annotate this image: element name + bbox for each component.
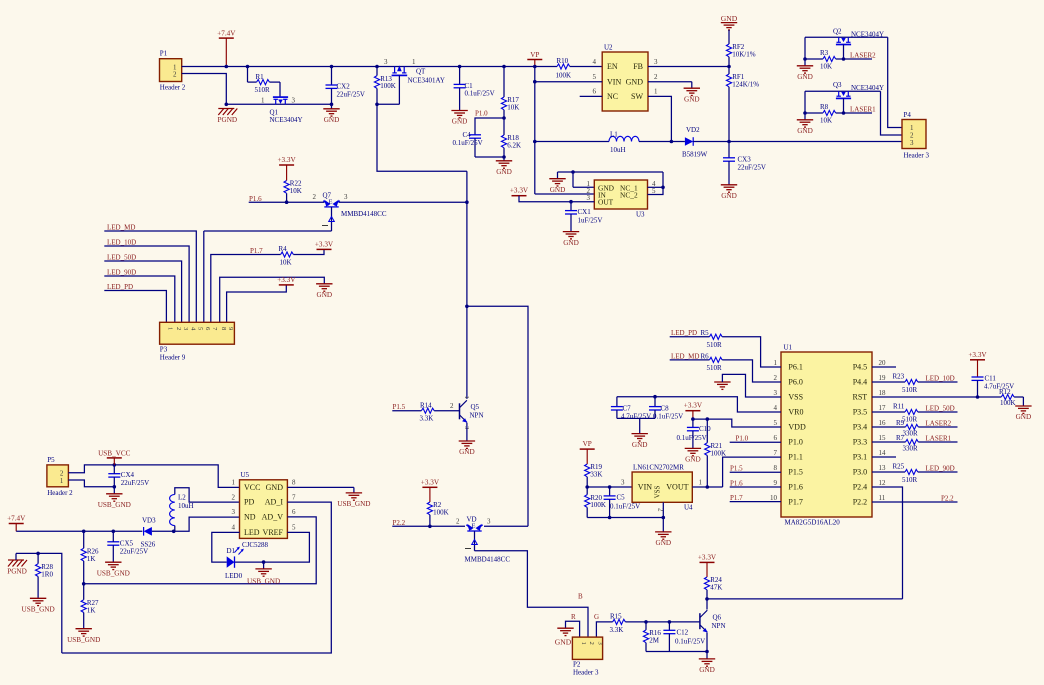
svg-text:P1.0: P1.0 <box>475 110 488 118</box>
wire CX3 bottom lead <box>728 161 730 185</box>
wire +3.3V to U1 VDD <box>693 419 781 427</box>
svg-text:17: 17 <box>879 404 887 412</box>
wire stem to GND <box>662 518 664 532</box>
svg-text:R12: R12 <box>999 388 1011 396</box>
wire R1 right lead <box>269 81 280 83</box>
svg-text:3: 3 <box>774 389 778 397</box>
wire U4 bottom gnd row <box>587 517 663 519</box>
svg-text:22uF/25V: 22uF/25V <box>120 547 148 555</box>
svg-text:6.2K: 6.2K <box>507 142 521 150</box>
wire bus to R17 <box>503 67 505 98</box>
wire VOUT to CX3 <box>728 142 730 158</box>
svg-text:R5: R5 <box>701 329 710 337</box>
resistor R2 <box>427 502 432 515</box>
ground USB_GND under R28 (USB_GND) <box>30 597 46 599</box>
wire U2 GND pin wire <box>648 81 692 83</box>
power +3.3V P3 pin9 (+3.3V) <box>279 284 294 286</box>
svg-text:0.1uF/25V: 0.1uF/25V <box>653 412 683 420</box>
svg-text:GND: GND <box>626 77 644 86</box>
wire R20 top lead <box>586 487 588 495</box>
svg-text:NCE3404Y: NCE3404Y <box>270 116 303 124</box>
svg-text:GND: GND <box>797 127 813 135</box>
svg-text:P2: P2 <box>573 661 581 669</box>
svg-text:R1: R1 <box>256 73 265 81</box>
svg-text:D1: D1 <box>227 547 236 555</box>
svg-text:USB_GND: USB_GND <box>337 500 370 508</box>
wire P1.0 branch to C4 <box>475 118 504 135</box>
svg-text:LED: LED <box>244 528 260 537</box>
ground GND under R18 <box>496 160 512 162</box>
sensor U5 body <box>240 480 288 539</box>
header P2 body <box>572 637 602 659</box>
regulator U3 body <box>594 180 647 209</box>
wire R13-gate link <box>377 103 399 105</box>
svg-text:PGND: PGND <box>218 116 238 124</box>
wire pin13 to R25 <box>872 471 905 473</box>
svg-text:2: 2 <box>654 73 658 81</box>
svg-text:VD3: VD3 <box>142 517 156 525</box>
wire VP to L1 <box>535 141 609 143</box>
wire CX4 bottom lead <box>113 477 115 487</box>
capacitor C8 <box>649 406 661 408</box>
svg-text:VP: VP <box>530 51 539 59</box>
svg-text:LED_PD: LED_PD <box>671 329 697 337</box>
ground USB_GND under CX4 (USB_GND) <box>106 493 122 495</box>
svg-text:7: 7 <box>774 449 778 457</box>
junction CX5 tap <box>112 530 116 534</box>
capacitor C4 <box>469 134 481 136</box>
wire VR0 rail from C7/C8 <box>617 397 781 412</box>
wire QT gate drop <box>398 75 400 104</box>
svg-text:GND: GND <box>699 666 715 674</box>
capacitor CX3 <box>723 157 735 159</box>
svg-text:LED_50D: LED_50D <box>107 254 136 262</box>
ground GND under U4 <box>655 531 671 533</box>
svg-text:GND: GND <box>266 483 284 492</box>
wire vertical bus x467 <box>466 171 468 399</box>
resistor R17 <box>501 97 506 110</box>
svg-text:VSS: VSS <box>788 393 803 402</box>
wire VP to U2 VIN <box>535 81 602 83</box>
svg-text:P1: P1 <box>160 50 168 58</box>
wire C4 bottom lead <box>474 138 476 157</box>
transistor Q2 NCE3404Y <box>836 37 851 44</box>
wire P2 pin1 to GND <box>566 621 580 637</box>
wire stem to GND <box>263 562 265 569</box>
junction AD_V node <box>82 582 86 586</box>
wire R28 top lead <box>37 553 39 563</box>
power +3.3V above C11 (+3.3V) <box>970 359 985 361</box>
resistor R13 <box>374 76 379 89</box>
wire R4 to +3.3V <box>293 249 324 254</box>
svg-text:P1.6: P1.6 <box>788 483 802 492</box>
svg-text:+3.3V: +3.3V <box>968 351 987 359</box>
svg-text:1R0: 1R0 <box>41 570 53 578</box>
wire Q2 drain to P4 pin1 <box>888 37 895 127</box>
wire Q7 common pin down + anode mark <box>331 207 333 231</box>
wire loop up to PGND row <box>16 553 62 653</box>
svg-text:11: 11 <box>879 494 886 502</box>
svg-text:10K: 10K <box>280 259 292 267</box>
junction C8 top junction <box>653 395 657 399</box>
regulator U2 body <box>602 52 648 111</box>
svg-text:3: 3 <box>292 96 296 104</box>
svg-text:LN61CN2702MR: LN61CN2702MR <box>633 464 684 472</box>
svg-text:VREF: VREF <box>263 528 284 537</box>
svg-text:+3.3V: +3.3V <box>277 276 296 284</box>
junction Q7 pin3 junction <box>465 200 469 204</box>
ground GND right of R12 <box>1015 405 1031 407</box>
svg-text:LED_90D: LED_90D <box>926 465 955 473</box>
wire C4/R18 bottom row <box>475 156 504 158</box>
resistor RF2 <box>726 44 731 57</box>
svg-text:C12: C12 <box>677 628 689 636</box>
svg-text:0.1uF/25V: 0.1uF/25V <box>677 434 707 442</box>
wire U4 VOUT wire <box>692 486 722 488</box>
wire R27 bottom lead <box>83 613 85 629</box>
junction P1.0 node <box>502 116 506 120</box>
svg-text:GND: GND <box>324 116 340 124</box>
svg-text:R14: R14 <box>420 401 432 409</box>
wire R24 bottom lead <box>706 590 708 599</box>
wire R7 to LASER1 <box>918 441 957 443</box>
wire RF1 top lead <box>728 67 730 75</box>
svg-text:GND: GND <box>721 192 737 200</box>
svg-text:R: R <box>571 613 576 621</box>
svg-text:100K: 100K <box>1000 399 1016 407</box>
svg-text:Q6: Q6 <box>713 614 722 622</box>
svg-text:4: 4 <box>774 404 778 412</box>
junction emitter/rail junction <box>705 650 709 654</box>
svg-text:3.3K: 3.3K <box>610 626 624 634</box>
junction R19/R20/VIN node <box>585 485 589 489</box>
wire R1 left lead <box>248 81 257 83</box>
wire B net run to P2 pin2 <box>475 551 589 637</box>
svg-text:GND: GND <box>550 186 566 194</box>
svg-text:USB_GND: USB_GND <box>22 606 55 614</box>
junction SW node on L1 row <box>670 140 674 144</box>
svg-text:RST: RST <box>853 393 868 402</box>
wire Q5 emitter to GND <box>466 423 468 441</box>
wire R28 bottom lead <box>37 577 39 599</box>
svg-text:P1.7: P1.7 <box>788 498 802 507</box>
svg-text:3.3K: 3.3K <box>420 415 434 423</box>
svg-text:3: 3 <box>487 517 491 525</box>
junction VOUT node <box>727 140 731 144</box>
svg-text:P3.3: P3.3 <box>853 438 867 447</box>
wire P1.7 net wire (U1 pin10) <box>730 501 781 503</box>
svg-text:1K: 1K <box>87 606 96 614</box>
wire VP to U3 IN <box>535 193 595 195</box>
ground USB_GND under LED0 (USB_GND) <box>255 568 271 570</box>
svg-text:R4: R4 <box>279 245 288 253</box>
svg-text:CX5: CX5 <box>120 539 134 547</box>
svg-text:3: 3 <box>654 58 658 66</box>
wire R17 bottom lead <box>503 110 505 118</box>
svg-text:P1.7: P1.7 <box>730 494 743 502</box>
resistor R28 <box>36 564 41 577</box>
power +3.3V above R24 (+3.3V) <box>700 561 715 563</box>
wire LED_MD wire to R6 <box>670 359 710 361</box>
svg-text:1: 1 <box>60 477 64 485</box>
wire R25 to LED_90D <box>918 471 958 473</box>
wire U3 OUT to +3.3V <box>519 196 594 202</box>
ground GND under CX2 <box>323 108 339 110</box>
svg-text:L2: L2 <box>178 494 186 502</box>
svg-text:10uH: 10uH <box>178 502 194 510</box>
svg-text:AD_I: AD_I <box>265 498 284 507</box>
wire VP vertical rail <box>534 67 536 195</box>
capacitor C7 <box>611 406 623 408</box>
svg-text:5: 5 <box>774 419 778 427</box>
svg-text:CJC5288: CJC5288 <box>242 541 269 549</box>
svg-text:P1.6: P1.6 <box>730 479 743 487</box>
svg-text:P3.4: P3.4 <box>853 423 867 432</box>
svg-text:Header 2: Header 2 <box>160 84 186 92</box>
capacitor CX1 <box>565 210 577 212</box>
wire C8 bottom lead <box>654 410 656 418</box>
svg-text:8: 8 <box>292 479 296 487</box>
svg-text:B5819W: B5819W <box>682 151 708 159</box>
junction Q3 gate node <box>842 111 846 115</box>
junction R28 tap <box>36 552 40 556</box>
svg-text:ND: ND <box>244 512 256 521</box>
svg-text:+7.4V: +7.4V <box>7 515 26 523</box>
svg-text:GND: GND <box>563 239 579 247</box>
header P1 body <box>160 59 182 82</box>
resistor R15 <box>613 619 626 624</box>
svg-text:124K/1%: 124K/1% <box>732 81 759 89</box>
junction Q6 collector node <box>705 597 709 601</box>
wire L1 to VD2 <box>639 141 685 143</box>
power +3.3V at VDD (+3.3V) <box>685 410 700 412</box>
junction FB node <box>727 65 731 69</box>
svg-text:33K: 33K <box>590 471 602 479</box>
wire R8 right lead <box>836 112 844 114</box>
wire Q7 bottom row to P3 pin6 <box>204 230 332 232</box>
svg-text:10K: 10K <box>820 117 832 125</box>
svg-text:510R: 510R <box>707 341 723 349</box>
junction VP rail / L1 row <box>533 140 537 144</box>
wire AD_I long loop <box>62 502 332 653</box>
power +3.3V above R22 (+3.3V) <box>279 164 294 166</box>
svg-text:LED_50D: LED_50D <box>926 405 955 413</box>
resistor R1 <box>257 80 270 85</box>
wire LED_PD wire to R5 <box>670 336 710 338</box>
wire P1.6 net wire <box>249 201 325 203</box>
junction C1 top on bus <box>458 65 462 69</box>
wire R5 to U1 pin1 <box>722 337 781 367</box>
junction USB_GND tap on LED row <box>262 560 266 564</box>
wire CX2 bottom lead <box>331 88 333 104</box>
wire R14 to Q5 base <box>434 410 459 412</box>
power +3.3V right of R4 (+3.3V) <box>317 248 332 250</box>
svg-text:MMBD4148CC: MMBD4148CC <box>465 556 511 564</box>
svg-text:7: 7 <box>292 493 296 501</box>
svg-text:2: 2 <box>313 193 317 201</box>
svg-text:510R: 510R <box>902 415 918 423</box>
wire C12 bottom lead <box>668 634 670 652</box>
inductor L2 <box>170 494 175 525</box>
svg-text:P2.2: P2.2 <box>853 498 867 507</box>
transistor Q5 NPN <box>460 400 468 422</box>
svg-text:P6.1: P6.1 <box>788 363 802 372</box>
wire Q3 gate drop <box>843 98 845 113</box>
resistor R20 <box>585 495 590 508</box>
svg-text:13: 13 <box>879 464 887 472</box>
wire U2 FB to RF divider <box>648 66 729 68</box>
svg-text:14: 14 <box>879 449 887 457</box>
inductor L1 <box>609 136 639 141</box>
wire U5 GND pin wire <box>287 486 354 488</box>
wire VD pin3 up to x467 bus <box>467 306 528 526</box>
svg-text:USB_GND: USB_GND <box>247 578 280 586</box>
svg-text:QT: QT <box>416 68 426 76</box>
wire LED_PD to P3 pin1 <box>104 291 166 323</box>
svg-text:5: 5 <box>652 187 656 195</box>
wire PGND stem <box>15 553 17 560</box>
resistor RF1 <box>726 74 731 87</box>
svg-text:P6.0: P6.0 <box>788 378 802 387</box>
svg-text:FB: FB <box>633 62 643 71</box>
svg-text:P4.4: P4.4 <box>853 378 867 387</box>
svg-text:USB_VCC: USB_VCC <box>98 449 131 457</box>
svg-text:MMBD4148CC: MMBD4148CC <box>341 210 387 218</box>
junction NC_1 junction <box>661 186 665 190</box>
capacitor CX4 <box>108 473 120 475</box>
svg-text:5: 5 <box>593 73 597 81</box>
svg-text:+3.3V: +3.3V <box>277 156 296 164</box>
svg-text:VIN: VIN <box>607 77 621 86</box>
wire P5 pin1 to gnd node <box>68 480 114 487</box>
svg-text:+3.3V: +3.3V <box>315 240 334 248</box>
junction CX1 tap <box>569 200 573 204</box>
svg-text:22uF/25V: 22uF/25V <box>337 91 365 99</box>
wire stem to GND <box>804 59 806 66</box>
diode VD2 B5819W <box>685 137 693 146</box>
wire Q1 source row <box>226 103 331 105</box>
svg-text:P3: P3 <box>160 346 168 354</box>
svg-text:PD: PD <box>244 498 254 507</box>
svg-text:U5: U5 <box>241 471 250 479</box>
svg-text:OUT: OUT <box>598 198 614 207</box>
wire bus to CX2 <box>331 67 333 86</box>
svg-text:SW: SW <box>631 92 643 101</box>
ground GND above RF2 <box>728 29 730 31</box>
wire P1.0 net wire (U1 pin6) <box>730 441 781 443</box>
power +3.3V above R2 (+3.3V) <box>422 486 437 488</box>
ground USB_GND under R27 (USB_GND) <box>76 628 92 630</box>
resistor R18 <box>501 135 506 148</box>
wire P4 pin2 stub <box>895 134 902 136</box>
svg-text:10uH: 10uH <box>610 146 626 154</box>
wire LED_MD to P3 pin5 <box>104 231 196 322</box>
svg-text:R11: R11 <box>893 402 905 410</box>
svg-text:MA82G5D16AL20: MA82G5D16AL20 <box>785 519 841 527</box>
wire U2 NC stub <box>580 95 603 97</box>
wire CX1 bottom lead <box>570 214 572 232</box>
wire R8 left lead <box>805 112 823 114</box>
wire U1 pin20 stub <box>872 366 896 368</box>
svg-text:2: 2 <box>450 402 454 410</box>
svg-text:LED_MD: LED_MD <box>107 224 135 232</box>
svg-text:VCC: VCC <box>244 483 260 492</box>
svg-text:VIN: VIN <box>638 483 652 492</box>
svg-text:2: 2 <box>456 517 460 525</box>
wire P5 pin2 to U5 VCC <box>68 465 239 488</box>
wire stem to GND <box>503 157 505 161</box>
svg-text:R15: R15 <box>610 613 622 621</box>
svg-text:VP: VP <box>583 440 592 448</box>
power VP port top (VP) <box>527 59 542 61</box>
resistor R19 <box>585 464 590 477</box>
svg-text:P1.5: P1.5 <box>393 403 406 411</box>
diode VD MMBD4148CC <box>466 524 483 531</box>
wire L2 bottom lead <box>174 526 176 532</box>
capacitor C5 <box>604 495 616 497</box>
svg-text:NCE3404Y: NCE3404Y <box>851 30 884 38</box>
svg-text:100K: 100K <box>711 449 727 457</box>
wire Q3 drain to P4 pin2 <box>881 91 896 135</box>
svg-text:R3: R3 <box>820 49 829 57</box>
wire stem to GND <box>557 172 559 179</box>
junction R17 top on bus <box>502 65 506 69</box>
svg-text:6: 6 <box>292 508 296 516</box>
wire stem to GND <box>804 113 806 120</box>
wire U3 NC_1 stub <box>648 186 664 188</box>
svg-text:3: 3 <box>232 508 236 516</box>
svg-text:0.1uF/25V: 0.1uF/25V <box>465 90 495 98</box>
wire C12 top lead <box>668 622 670 630</box>
wire P3 pin9 to +3.3V <box>227 285 287 322</box>
resistor R16 <box>643 630 648 643</box>
svg-text:C4: C4 <box>463 131 472 139</box>
ground GND under Q5 <box>459 440 475 442</box>
svg-text:LASER1: LASER1 <box>926 435 952 443</box>
diode VD3 SS26 <box>144 527 152 536</box>
wire R23 to LED_10D <box>918 381 958 383</box>
svg-text:USB_GND: USB_GND <box>97 569 130 577</box>
wire R12 to GND <box>1014 396 1023 398</box>
svg-text:100K: 100K <box>380 82 396 90</box>
wire R26 top lead <box>83 531 85 548</box>
wire to U4 VIN <box>587 486 632 488</box>
junction R21 node <box>706 417 710 421</box>
svg-text:USB_GND: USB_GND <box>67 636 100 644</box>
svg-text:Header 9: Header 9 <box>160 354 186 362</box>
svg-text:P5: P5 <box>47 456 55 464</box>
svg-text:P2.4: P2.4 <box>853 483 867 492</box>
wire LED_50D to P3 pin3 <box>104 261 181 322</box>
wire R3 left lead <box>805 58 823 60</box>
wire VSS to GND jog <box>722 374 781 397</box>
wire P3 pin8 to GND <box>220 277 325 322</box>
svg-text:510R: 510R <box>902 386 918 394</box>
junction gnd rail junction <box>571 170 575 174</box>
wire R10 to U2 EN <box>570 66 602 68</box>
junction R18/C4 gnd node <box>502 155 506 159</box>
svg-text:+3.3V: +3.3V <box>421 478 440 486</box>
svg-text:Header 2: Header 2 <box>47 489 73 497</box>
ground GND under C10 <box>685 447 701 449</box>
svg-text:NPN: NPN <box>712 622 726 630</box>
svg-text:GND: GND <box>459 448 475 456</box>
svg-text:P1.5: P1.5 <box>730 465 743 473</box>
wire L2 top to U5 PD <box>175 488 240 502</box>
header P3 body <box>160 322 235 344</box>
wire stem to GND <box>331 104 333 109</box>
svg-text:9: 9 <box>774 479 778 487</box>
